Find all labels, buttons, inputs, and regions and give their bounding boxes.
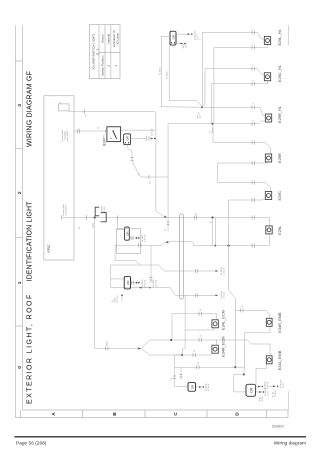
svg-text:0,75-16: 0,75-16 (224, 291, 226, 299)
bottom left corner line (288, 391, 290, 410)
wire: D4 left to D5 bus (229, 246, 270, 368)
stub box (59, 104, 70, 111)
junction D9 (181, 354, 183, 356)
wire: D9 chain from W-D (175, 295, 212, 357)
svg-text:1: 1 (253, 28, 255, 30)
svg-text:1: 1 (253, 102, 255, 104)
svg-text:E29L_H1: E29L_H1 (277, 29, 282, 45)
svg-text:OR: OR (126, 281, 130, 285)
svg-text:16: 16 (149, 181, 151, 184)
svg-text:16: 16 (198, 361, 200, 364)
svg-text:16: 16 (79, 226, 81, 229)
svg-text:E29R_H1: E29R_H1 (277, 106, 282, 123)
wire: D3 twin links to NET-Q (212, 218, 214, 246)
svg-text:16: 16 (195, 212, 197, 215)
svg-text:1: 1 (199, 38, 201, 40)
junction D2 (211, 123, 213, 125)
lamp wires H1 row (202, 33, 268, 124)
svg-text:IDENTIFICATION LIGHT: IDENTIFICATION LIGHT (27, 201, 34, 282)
svg-text:3633: 3633 (93, 222, 95, 227)
svg-text:16: 16 (210, 220, 212, 223)
S247 switch (102, 127, 120, 146)
svg-text:3: 3 (17, 104, 23, 107)
footer (not rotated) (15, 425, 307, 447)
svg-text:16: 16 (165, 228, 167, 231)
svg-text:A: A (137, 173, 140, 175)
W-D wire (111, 265, 226, 303)
svg-text:16: 16 (200, 334, 202, 337)
svg-text:2: 2 (253, 119, 255, 121)
lamp E34L_ECM (212, 310, 226, 330)
svg-text:1: 1 (253, 64, 255, 66)
svg-text:0,75-16: 0,75-16 (145, 234, 147, 242)
svg-text:Page 56 (268): Page 56 (268) (16, 441, 47, 447)
wire: D2 riser (165, 124, 213, 232)
junction D1 (201, 106, 203, 108)
svg-text:E34R_EMB: E34R_EMB (277, 312, 282, 333)
svg-text:1: 1 (17, 281, 23, 284)
NET-P dashes below capsule (194, 215, 196, 219)
FRC box (44, 96, 74, 260)
svg-text:1: 1 (114, 65, 118, 67)
svg-text:E34R_ECM: E34R_ECM (220, 336, 225, 357)
lamp E29L_H1 (264, 29, 282, 45)
lamp E34R_EMB (266, 312, 282, 333)
svg-text:16 3624: 16 3624 (159, 67, 161, 75)
wire: OR2 left exit to bus (127, 145, 168, 184)
lamp E29R (265, 153, 282, 163)
wire: bus bottom to E34R_EMB t2 (245, 326, 270, 367)
junction D3 (211, 216, 213, 218)
wire: E29R feed from D2 (213, 124, 270, 154)
svg-text:S247: S247 (102, 137, 106, 146)
wire: E29L t1 dashes (252, 198, 255, 248)
svg-text:from VMCU: from VMCU (64, 204, 67, 215)
junction D8 (170, 339, 172, 341)
svg-text:OR: OR (171, 34, 175, 39)
switch table S247 (89, 25, 120, 79)
svg-text:ID Lamp: ID Lamp (116, 33, 120, 45)
wire: D8 down to E34L_EMB (171, 334, 270, 355)
svg-text:3633: 3633 (212, 128, 214, 133)
OR4b upper cluster (117, 215, 147, 253)
svg-text:1,5-B: 1,5-B (262, 396, 264, 402)
wire: D4 right to E29C t2 (229, 199, 266, 246)
W-B wire and NET-Q vertical (115, 234, 269, 265)
svg-text:D - 1: D - 1 (95, 48, 99, 55)
svg-text:Action: Action (100, 34, 104, 43)
svg-text:OR: OR (126, 231, 130, 235)
W-C wire (111, 265, 226, 275)
svg-text:2: 2 (253, 43, 255, 45)
svg-text:OR: OR (191, 384, 195, 389)
svg-text:E34L_EMB: E34L_EMB (277, 350, 282, 370)
svg-text:16 3625: 16 3625 (167, 71, 169, 79)
svg-text:16: 16 (86, 114, 88, 117)
wire: heater stub path (69, 109, 167, 218)
svg-text:13: 13 (104, 134, 106, 137)
wire: E34L_EMB t2 to arrow (256, 364, 270, 396)
svg-text:Wiring diagram: Wiring diagram (274, 441, 306, 447)
svg-text:E29C_H1: E29C_H1 (277, 65, 282, 82)
lamp E29R_H1 (265, 106, 282, 123)
riser dashes H1 row (252, 28, 255, 126)
wire: E34R_EMB t1 (241, 304, 244, 312)
svg-text:0,75-16: 0,75-16 (224, 267, 226, 275)
junction D5 (234, 366, 236, 368)
svg-text:16: 16 (200, 308, 202, 311)
wire: E34L_ECM t2 via H-185 (185, 328, 214, 330)
OR6 connector (246, 381, 269, 402)
cable loom capsule (179, 214, 183, 299)
svg-text:16: 16 (199, 112, 201, 115)
svg-text:E34L_ECM: E34L_ECM (220, 310, 225, 330)
wire: pair to E34L_ECM t1 (172, 308, 217, 340)
svg-text:C: C (173, 412, 179, 416)
svg-text:EXTERIOR LIGHT, ROOF: EXTERIOR LIGHT, ROOF (27, 293, 34, 404)
wire: FRC pin to NET-P bus vertical (62, 205, 270, 229)
svg-text:FRC: FRC (46, 244, 51, 252)
junction D4 (228, 245, 230, 247)
lamp E34R_ECM (212, 336, 226, 357)
svg-text:from VMCU: from VMCU (66, 130, 69, 141)
wire: D6 branch left (95, 218, 182, 356)
svg-text:16: 16 (171, 377, 173, 380)
arrow continuation below OR6 (268, 378, 285, 397)
svg-text:1,5-O: 1,5-O (283, 383, 285, 389)
OR4 lower cluster (111, 276, 147, 289)
svg-text:16: 16 (194, 349, 196, 352)
svg-text:2: 2 (17, 191, 23, 194)
grid letter strip (left) (15, 410, 288, 418)
OR5 bus vertical (171, 355, 245, 386)
lamp E29C (265, 191, 282, 201)
lamp E29C_H1 (264, 65, 282, 82)
short legend line bottom right (288, 25, 290, 45)
svg-text:16: 16 (242, 304, 244, 307)
grid number strip (top) (15, 25, 22, 417)
svg-text:1686460: 1686460 (272, 425, 285, 429)
lamp E34L_EMB (266, 350, 282, 370)
svg-text:Natural: Natural (106, 34, 110, 44)
svg-text:WIRING DIAGRAM GF: WIRING DIAGRAM GF (27, 71, 34, 147)
svg-text:0,75-16: 0,75-16 (156, 279, 158, 287)
junction D6 (94, 216, 96, 218)
svg-text:E29C: E29C (277, 191, 282, 201)
svg-text:0: 0 (17, 366, 23, 369)
svg-text:0,75-16: 0,75-16 (267, 381, 269, 389)
svg-text:E29L: E29L (277, 225, 282, 235)
svg-text:A: A (51, 412, 57, 416)
OR2 connector + exit (121, 128, 156, 144)
svg-text:B: B (112, 412, 118, 416)
wire: FRC to S247 (74, 126, 107, 137)
wire: E29R t2 to E29C t1 (218, 161, 271, 192)
svg-text:OR: OR (250, 387, 254, 393)
svg-text:2: 2 (253, 79, 255, 81)
svg-text:0: 0 (106, 65, 110, 67)
svg-text:0,75-16: 0,75-16 (152, 128, 154, 136)
middle knot extra marks (139, 243, 158, 288)
svg-text:1,5-O: 1,5-O (268, 390, 270, 396)
svg-text:1,5-B: 1,5-B (185, 43, 187, 49)
svg-text:3635: 3635 (107, 341, 109, 346)
svg-text:0,75-16: 0,75-16 (104, 206, 106, 214)
svg-text:0,75-16: 0,75-16 (208, 383, 210, 391)
OR1 cluster (159, 30, 202, 107)
svg-text:E29R: E29R (277, 153, 282, 163)
svg-text:0,75-16: 0,75-16 (145, 279, 147, 287)
OR5 connector (188, 383, 210, 392)
junction D5b (243, 373, 245, 375)
lamp E29L (266, 225, 282, 235)
svg-text:16: 16 (98, 126, 100, 129)
wire: D5b to OR6 (234, 367, 246, 392)
svg-text:1,5R-O: 1,5R-O (275, 390, 277, 397)
svg-text:D: D (235, 412, 241, 416)
svg-text:0,75-16: 0,75-16 (117, 295, 119, 303)
svg-text:OR: OR (125, 135, 129, 140)
svg-text:Switch Position: Switch Position (100, 55, 104, 76)
